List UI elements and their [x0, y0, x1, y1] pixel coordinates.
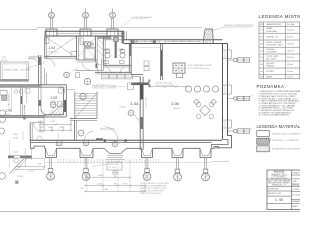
svg-text:1.543: 1.543 [50, 121, 55, 123]
svg-text:1.545: 1.545 [37, 164, 42, 166]
svg-text:SCHODIŠTĚ: SCHODIŠTĚ [266, 51, 277, 54]
svg-text:SKLAD (12,2): SKLAD (12,2) [48, 50, 59, 53]
svg-text:1.05: 1.05 [171, 101, 180, 106]
svg-text:ZÁDVEŘÍ + WC: ZÁDVEŘÍ + WC [266, 35, 279, 38]
svg-text:SKLAD + CHODBA: SKLAD + CHODBA [266, 41, 282, 44]
svg-text:NÁZEV MÍSTNOSTI: NÁZEV MÍSTNOSTI [267, 23, 283, 26]
svg-text:1.02: 1.02 [260, 36, 263, 38]
svg-text:1.01: 1.01 [6, 109, 12, 113]
svg-text:89,90 m2: 89,90 m2 [287, 57, 294, 59]
svg-text:(1.545): (1.545) [28, 171, 34, 173]
svg-text:NOVÉ ZDIVO — P. TVÁRNICE tl.: NOVÉ ZDIVO — P. TVÁRNICE tl. dle PD [272, 139, 300, 142]
svg-text:1.240 2.650 900: 1.240 2.650 900 [9, 94, 11, 108]
svg-text:4.415 2.020: 4.415 2.020 [146, 97, 148, 108]
svg-text:LEGENDA MATERIÁLŮ: LEGENDA MATERIÁLŮ [257, 124, 301, 129]
svg-text:C.V. ±0,000: C.V. ±0,000 [108, 167, 116, 169]
svg-text:370: 370 [81, 188, 84, 190]
svg-text:1 : 50: 1 : 50 [275, 198, 283, 202]
svg-text:1.04: 1.04 [131, 101, 140, 106]
svg-text:POZNÁMKA :: POZNÁMKA : [257, 84, 288, 89]
svg-text:SCHODIŠTĚ + ZÁDV.: SCHODIŠTĚ + ZÁDV. [266, 44, 283, 47]
svg-text:PŘEDSÍŇ: PŘEDSÍŇ [266, 65, 274, 68]
svg-text:1.08: 1.08 [260, 77, 263, 79]
svg-text:1.02: 1.02 [51, 96, 58, 100]
svg-text:1.06: 1.06 [118, 48, 124, 52]
svg-text:D.1.1.02: D.1.1.02 [292, 194, 300, 196]
svg-text:CHODBA +: CHODBA + [266, 48, 275, 51]
svg-text:4,10 m2: 4,10 m2 [287, 71, 293, 73]
svg-text:(2.440): (2.440) [97, 183, 103, 185]
svg-text:1.03: 1.03 [49, 46, 56, 50]
svg-text:WC ŽENY: WC ŽENY [266, 70, 275, 73]
svg-text:1.01: 1.01 [260, 29, 263, 31]
svg-text:OMÍTKY ŠTUKOVÉ, BÍLÉ.: OMÍTKY ŠTUKOVÉ, BÍLÉ. [140, 192, 162, 195]
svg-text:1.970: 1.970 [123, 183, 128, 185]
svg-text:5,20 m2: 5,20 m2 [287, 77, 293, 79]
svg-text:21,50 m2: 21,50 m2 [287, 29, 294, 31]
svg-text:STÁVAJÍCÍ ZDIVO + KONSTRUKCE: STÁVAJÍCÍ ZDIVO + KONSTRUKCE [272, 132, 300, 135]
svg-text:12,20 m2: 12,20 m2 [287, 43, 294, 45]
svg-text:BOURANÉ ZDIVO A KONSTRUKCE: BOURANÉ ZDIVO A KONSTRUKCE [272, 148, 300, 151]
svg-text:CHRUDIM II — 537 01: CHRUDIM II — 537 01 [271, 174, 287, 176]
svg-text:VÝČEP + REST.: VÝČEP + REST. [266, 55, 279, 58]
svg-text:1.07: 1.07 [104, 48, 110, 52]
svg-text:STÁVAJÍCÍ GARÁŽ — BEZ ÚPRAV: STÁVAJÍCÍ GARÁŽ — BEZ ÚPRAV [4, 68, 32, 71]
svg-text:Pod lesem 152: Pod lesem 152 [274, 173, 285, 175]
svg-text:PŮDORYS: PŮDORYS [292, 177, 300, 180]
svg-text:SKLAD ZAHR.: SKLAD ZAHR. [266, 30, 278, 33]
svg-text:(21,50): (21,50) [2, 60, 8, 62]
svg-text:1.07: 1.07 [260, 71, 263, 73]
svg-text:LEGENDA MÍSTNOSTÍ: LEGENDA MÍSTNOSTÍ [259, 13, 301, 19]
svg-text:NOVÉ ODVĚTRÁNÍ KUCHYNĚ: NOVÉ ODVĚTRÁNÍ KUCHYNĚ [188, 64, 213, 67]
svg-text:1.051: 1.051 [38, 121, 43, 123]
svg-text:4.440: 4.440 [103, 189, 109, 191]
svg-text:VZT POTRUBÍ 200x100 mm: VZT POTRUBÍ 200x100 mm [188, 67, 210, 70]
svg-text:±0,000: ±0,000 [13, 151, 18, 153]
svg-text:(7.080): (7.080) [97, 175, 104, 177]
svg-text:891: 891 [40, 127, 43, 129]
svg-text:(9,15): (9,15) [5, 114, 10, 116]
svg-text:ŠATNA: ŠATNA [266, 76, 272, 79]
svg-text:(18,35): (18,35) [120, 106, 127, 108]
svg-text:1.04: 1.04 [260, 50, 263, 52]
svg-text:VSTUP 1.NP: VSTUP 1.NP [108, 164, 117, 166]
svg-text:VÝŠKA 2.600 — DO STROPU: VÝŠKA 2.600 — DO STROPU [92, 87, 117, 90]
svg-text:6,25 m2: 6,25 m2 [287, 36, 293, 38]
svg-text:1.050: 1.050 [13, 134, 18, 136]
svg-text:1.05: 1.05 [260, 57, 263, 59]
svg-text:REKONSTRUKCE OBJEKTU: REKONSTRUKCE OBJEKTU [268, 183, 290, 185]
svg-text:GARÁŽ +: GARÁŽ + [266, 27, 273, 30]
svg-text:DEMONT. KOMÍNOVÉ TĚLESO: DEMONT. KOMÍNOVÉ TĚLESO [225, 24, 254, 27]
svg-text:1.050: 1.050 [40, 132, 45, 134]
svg-text:11. ZTI A ÚT DLE SAMOSTATNÉ PD: 11. ZTI A ÚT DLE SAMOSTATNÉ PD [259, 114, 291, 117]
svg-text:1.03: 1.03 [260, 43, 263, 45]
svg-text:TEL: +420 605 254 125: TEL: +420 605 254 125 [271, 178, 288, 180]
svg-text:(89,90): (89,90) [174, 108, 181, 110]
svg-text:860: 860 [114, 183, 117, 185]
svg-text:4,05 m2: 4,05 m2 [287, 64, 293, 66]
svg-text:SAL. ODBYT: SAL. ODBYT [266, 58, 276, 61]
svg-text:WC MUŽI +: WC MUŽI + [266, 62, 275, 65]
svg-text:18,35 m2: 18,35 m2 [287, 50, 294, 52]
svg-text:PLOCHA: PLOCHA [287, 23, 295, 26]
svg-text:(1.75): (1.75) [13, 138, 18, 140]
svg-text:(2.705): (2.705) [17, 176, 23, 178]
svg-text:1.06: 1.06 [260, 64, 263, 66]
svg-text:NOVÁ TURBOHLAVICE: NOVÁ TURBOHLAVICE [132, 16, 153, 19]
svg-text:SO 01: SO 01 [292, 184, 299, 187]
